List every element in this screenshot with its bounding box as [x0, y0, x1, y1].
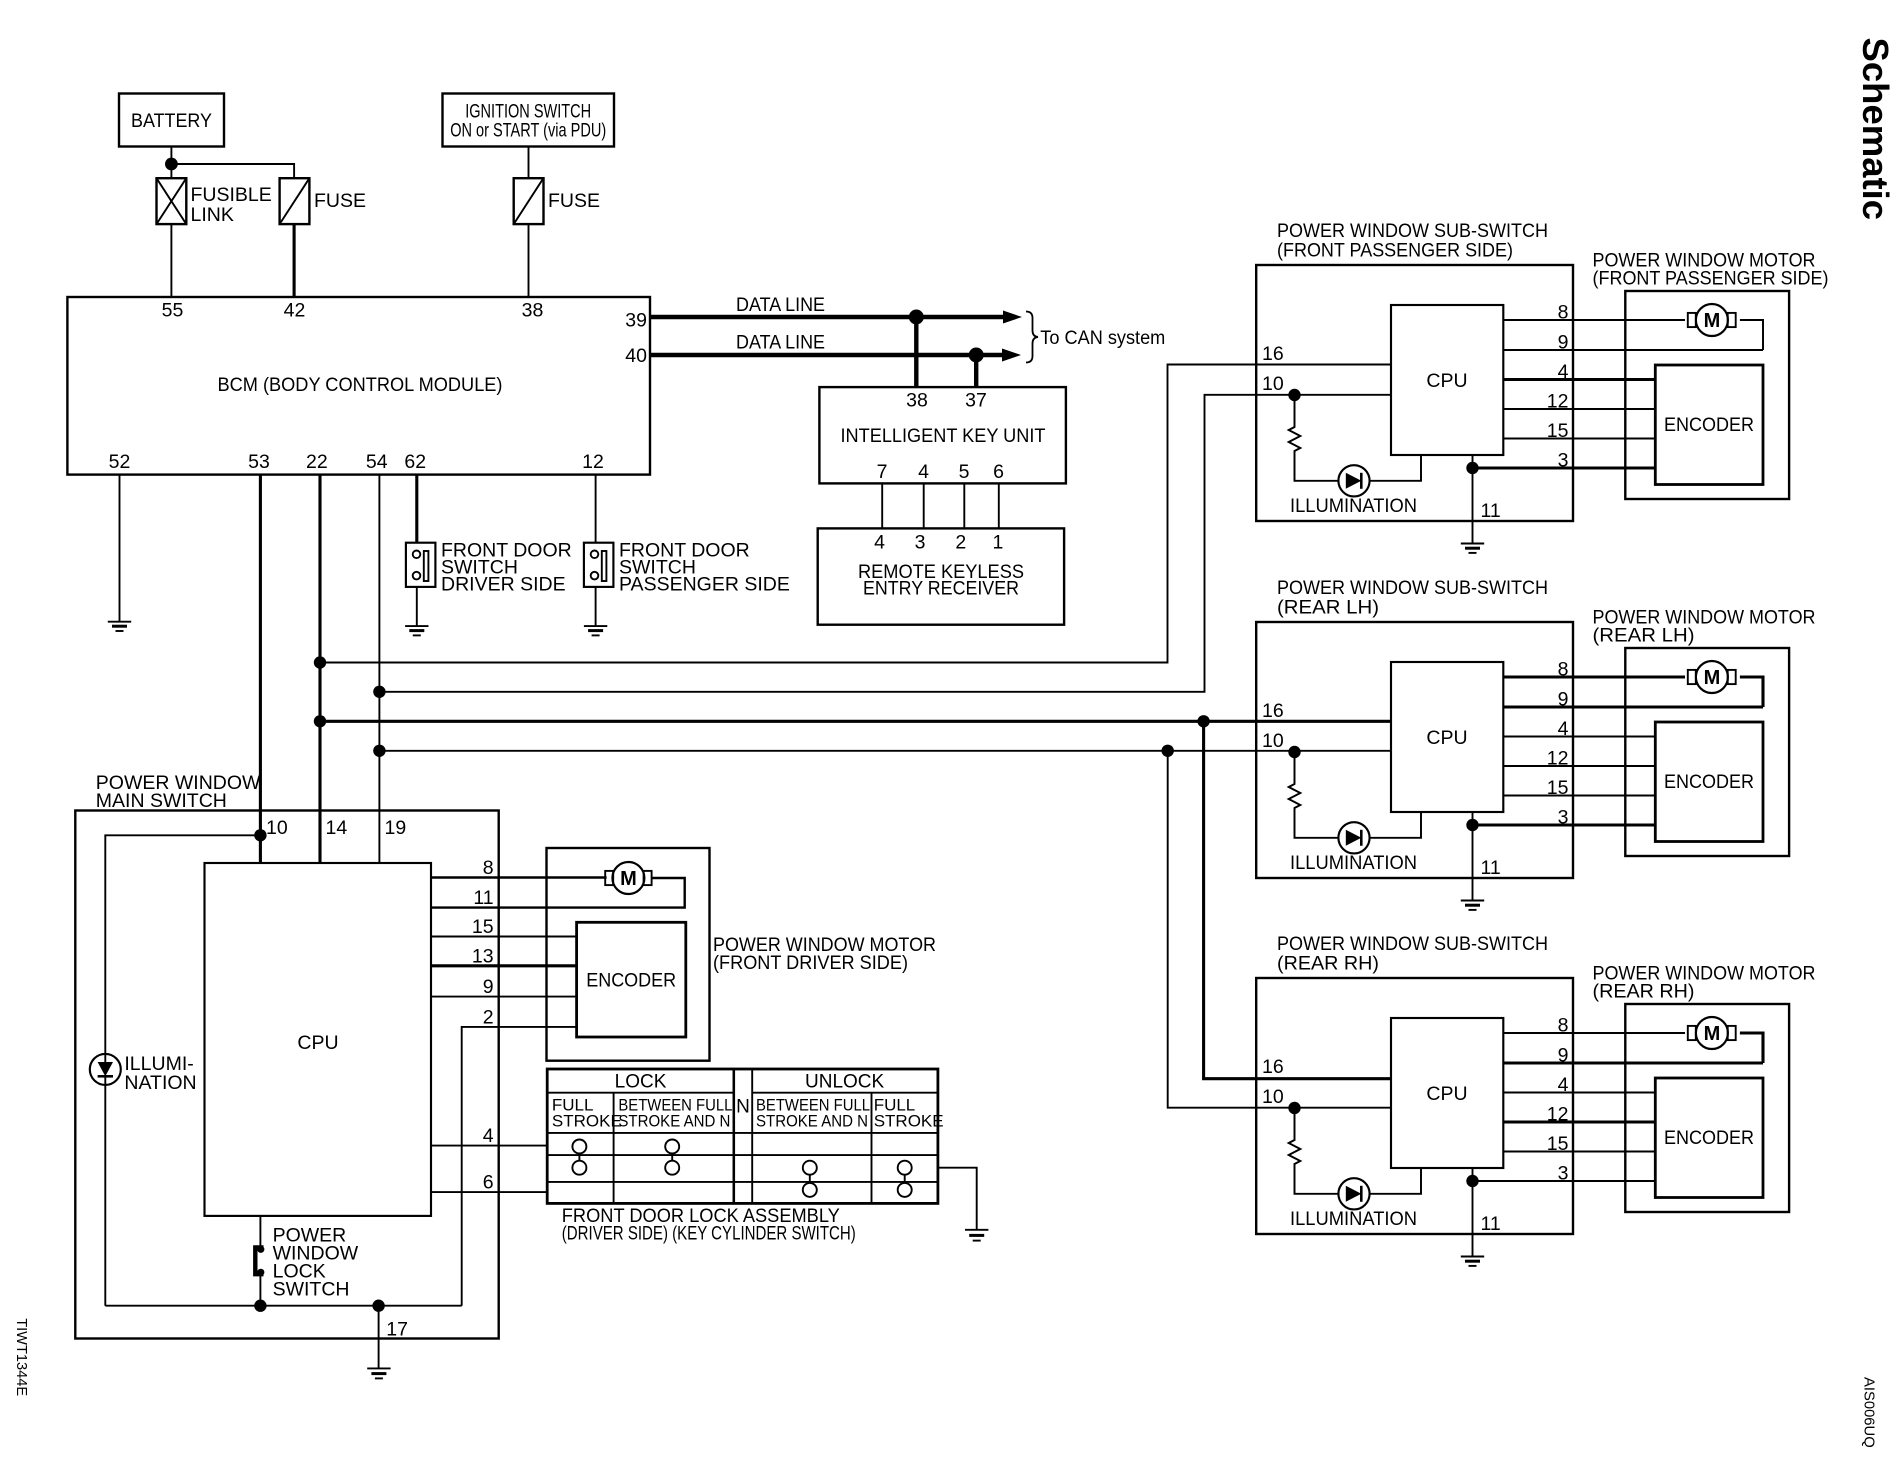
svg-text:8: 8 [483, 857, 494, 879]
remote keyless entry receiver [818, 528, 1064, 624]
svg-text:8: 8 [1558, 659, 1569, 681]
svg-text:ENCODER: ENCODER [1664, 415, 1754, 436]
wire IKU pin 37 [974, 355, 978, 387]
wire IKU 4 to RKE 3 [923, 483, 925, 528]
wire IKU 7 to RKE 4 [881, 483, 883, 528]
wire BCM pin 55 [170, 224, 172, 297]
svg-text:12: 12 [1547, 1104, 1569, 1126]
svg-text:12: 12 [1547, 748, 1569, 770]
wire BCM pin 12 to front door switch passenger side [595, 475, 597, 543]
wire CPU pin 9 to encoder [431, 996, 577, 998]
wire motor return to pin 9 (rear RH) [1740, 1033, 1763, 1063]
junction dot illumination branch (front passenger) [1288, 389, 1300, 401]
svg-text:9: 9 [1558, 1045, 1569, 1067]
svg-text:M: M [1704, 667, 1721, 689]
resistor illumination (rear LH) [1289, 752, 1339, 838]
resistor illumination (rear RH) [1289, 1108, 1339, 1194]
intelligent key unit [819, 387, 1066, 483]
resistor illumination (front passenger) [1289, 395, 1339, 481]
fusible link [157, 178, 187, 224]
junction dot battery branch [165, 158, 178, 171]
wire sub-switch pin 12 (rear LH) [1503, 765, 1655, 767]
wire BCM pin 38 [528, 224, 530, 297]
table row line 1 [547, 1132, 938, 1134]
ground (sub-switch rear LH pin 11) [1461, 901, 1484, 910]
junction dot pin 17 / ground bus [372, 1300, 384, 1312]
wire sub-switch pin 12 (front passenger) [1503, 408, 1655, 410]
svg-text:38: 38 [522, 300, 544, 322]
svg-text:FUSE: FUSE [548, 190, 600, 212]
front door lock assembly key cylinder switch table [547, 1069, 938, 1203]
svg-text:M: M [1704, 310, 1721, 332]
svg-text:BCM (BODY CONTROL MODULE): BCM (BODY CONTROL MODULE) [218, 374, 503, 396]
junction dot data line 40 / pin 37 [969, 348, 984, 363]
svg-text:6: 6 [993, 461, 1004, 483]
svg-text:ILLUMINATION: ILLUMINATION [1290, 1208, 1417, 1230]
motor M rear RH [1688, 1017, 1736, 1049]
table column divider col3/col4 [871, 1093, 873, 1204]
svg-text:3: 3 [1558, 807, 1569, 829]
svg-text:3: 3 [1558, 450, 1569, 472]
svg-text:11: 11 [1481, 857, 1501, 879]
power window motor front driver side box [547, 848, 710, 1061]
svg-text:POWER WINDOW MOTOR(FRONT DRIVE: POWER WINDOW MOTOR(FRONT DRIVER SIDE) [713, 934, 936, 974]
svg-text:11: 11 [1481, 500, 1501, 522]
wire CPU pin 15 to encoder [431, 936, 577, 938]
junction dot lock switch / ground bus [254, 1300, 266, 1312]
svg-text:7: 7 [877, 461, 888, 483]
svg-text:15: 15 [472, 916, 494, 938]
svg-text:15: 15 [1547, 777, 1569, 799]
svg-text:4: 4 [483, 1125, 494, 1147]
wire sub-switch pin 4 (rear RH) [1503, 1092, 1655, 1094]
arrowhead data line 39 [1003, 311, 1022, 324]
svg-text:12: 12 [582, 451, 604, 473]
svg-text:5: 5 [959, 461, 970, 483]
svg-text:40: 40 [625, 345, 647, 367]
svg-text:INTELLIGENT KEY UNIT: INTELLIGENT KEY UNIT [841, 425, 1046, 447]
svg-text:10: 10 [266, 817, 288, 839]
svg-text:53: 53 [248, 451, 270, 473]
wire pin 11 to ground (rear RH) [1472, 1168, 1474, 1256]
LED illumination (rear RH) [1338, 1178, 1369, 1209]
svg-text:9: 9 [1558, 332, 1569, 354]
svg-text:11: 11 [1481, 1213, 1501, 1235]
svg-text:8: 8 [1558, 302, 1569, 324]
encoder (rear RH) [1655, 1078, 1763, 1198]
wire branch to rear RH sub-switch pin 10 [1168, 751, 1391, 1108]
wire driver door switch to ground [416, 587, 418, 626]
junction dot pin 22 bus [314, 656, 326, 668]
CPU (rear RH) [1391, 1018, 1503, 1168]
svg-text:17: 17 [386, 1319, 408, 1341]
wire CPU to lock switch [259, 1216, 261, 1249]
svg-text:CPU: CPU [1426, 727, 1467, 749]
power window main switch [75, 811, 498, 1339]
svg-text:Schematic: Schematic [1855, 38, 1896, 221]
wire battery to junction [170, 147, 172, 179]
svg-text:52: 52 [109, 451, 131, 473]
front door switch passenger side [584, 543, 614, 587]
power window sub-switch front passenger [1256, 265, 1573, 521]
encoder (front passenger) [1655, 365, 1763, 485]
svg-text:CPU: CPU [1426, 370, 1467, 392]
table row line 2 [547, 1154, 938, 1156]
ground (sub-switch rear RH pin 11) [1461, 1257, 1484, 1266]
main switch CPU [205, 863, 432, 1216]
svg-text:4: 4 [874, 532, 885, 554]
svg-text:3: 3 [915, 532, 926, 554]
wire IKU pin 38 [914, 317, 918, 387]
wire CPU pin 6 to key cylinder switch [431, 1191, 547, 1193]
wire sub-switch pin 3 (front passenger) [1473, 466, 1656, 469]
wire sub-switch pin 3 (rear RH) [1473, 1180, 1656, 1182]
svg-text:BETWEEN FULLSTROKE AND N: BETWEEN FULLSTROKE AND N [756, 1096, 870, 1131]
ignition switch [443, 94, 615, 147]
svg-text:POWERWINDOWLOCKSWITCH: POWERWINDOWLOCKSWITCH [273, 1225, 359, 1301]
svg-text:13: 13 [472, 945, 494, 967]
svg-text:14: 14 [326, 817, 348, 839]
motor M front passenger [1688, 304, 1736, 336]
wire pin 11 to ground (rear LH) [1472, 812, 1474, 900]
wire ignition to fuse F2 [528, 147, 530, 179]
svg-text:ENCODER: ENCODER [1664, 772, 1754, 793]
battery [119, 94, 224, 147]
wire lock switch to ground bus [259, 1274, 261, 1306]
svg-text:37: 37 [965, 390, 987, 412]
wire sub-switch pin 8 (front passenger) [1503, 319, 1685, 321]
wire sub-switch pin 3 (rear LH) [1473, 823, 1656, 826]
wire key cylinder common to ground [938, 1168, 977, 1230]
svg-text:TIWT1344E: TIWT1344E [13, 1318, 29, 1396]
ground (BCM pin 52) [108, 622, 131, 631]
wire sub-switch pin 8 (rear LH) [1503, 675, 1685, 678]
svg-text:42: 42 [284, 300, 306, 322]
wire sub-switch pin 15 (rear LH) [1503, 795, 1655, 797]
junction dot pin 3 / pin 11 (front passenger) [1466, 462, 1478, 474]
svg-text:LOCK: LOCK [615, 1072, 667, 1093]
wire BCM pin 52 to ground [119, 475, 121, 622]
junction dot illumination branch (rear RH) [1288, 1102, 1300, 1114]
junction dot pin 54 / rear LH 10 bus [373, 745, 385, 757]
svg-text:4: 4 [1558, 361, 1569, 383]
power window sub-switch rear LH [1256, 622, 1573, 878]
power window motor rear RH box [1625, 1004, 1789, 1212]
ground bus inside main switch [105, 1305, 461, 1307]
wire bus pin 22 to front passenger sub-switch pin 16 [320, 365, 1391, 663]
svg-text:15: 15 [1547, 420, 1569, 442]
motor M rear LH [1688, 661, 1736, 693]
contact pair unlock between full stroke and N [803, 1161, 817, 1197]
data line net 39 [650, 315, 1006, 319]
LED illumination (main switch) [90, 1054, 121, 1085]
wire branch to rear RH sub-switch pin 16 [1204, 721, 1391, 1078]
svg-text:N: N [736, 1097, 750, 1118]
svg-text:M: M [620, 868, 637, 890]
wire motor return to pin 9 (front passenger) [1740, 320, 1763, 350]
svg-text:2: 2 [955, 532, 966, 554]
fuse F1 [280, 178, 310, 224]
wire CPU pin 13 to encoder [431, 964, 577, 967]
svg-text:3: 3 [1558, 1163, 1569, 1185]
wire motor return to CPU pin 11 [431, 878, 685, 908]
power window motor front passenger box [1625, 291, 1789, 499]
svg-text:ENCODER: ENCODER [586, 971, 676, 992]
svg-text:38: 38 [906, 390, 928, 412]
wire LED to CPU (rear RH) [1370, 1168, 1421, 1194]
junction dot illumination branch [254, 829, 266, 841]
ground (key cylinder switch) [965, 1230, 988, 1241]
svg-text:BETWEEN FULLSTROKE AND N: BETWEEN FULLSTROKE AND N [618, 1096, 732, 1131]
svg-text:39: 39 [625, 310, 647, 332]
junction dot data line 39 / pin 38 [909, 310, 924, 325]
LED illumination (front passenger) [1338, 465, 1369, 496]
svg-text:CPU: CPU [297, 1032, 338, 1054]
svg-text:4: 4 [1558, 1074, 1569, 1096]
ground (sub-switch front passenger pin 11) [1461, 544, 1484, 553]
motor M front driver side [605, 862, 651, 894]
power window sub-switch rear RH [1256, 978, 1573, 1234]
table row line 3 [547, 1181, 938, 1183]
svg-text:POWER WINDOW SUB-SWITCH(FRONT: POWER WINDOW SUB-SWITCH(FRONT PASSENGER … [1277, 220, 1548, 262]
svg-text:ENCODER: ENCODER [1664, 1128, 1754, 1149]
svg-text:9: 9 [483, 976, 494, 998]
encoder (front driver motor) [577, 922, 686, 1037]
wire sub-switch pin 8 (rear RH) [1503, 1032, 1685, 1034]
svg-text:11: 11 [473, 887, 493, 909]
wire bus pin 54 to front passenger sub-switch pin 10 [379, 395, 1391, 692]
junction dot rear RH 16 branch [1197, 715, 1209, 727]
svg-text:1: 1 [992, 532, 1003, 554]
wire sub-switch pin 9 (rear LH) [1503, 705, 1763, 708]
svg-text:54: 54 [366, 451, 388, 473]
wire CPU pin 8 to motor [431, 876, 607, 878]
wire BCM pin 22 to main switch pin 14 [318, 475, 321, 863]
wire IKU 5 to RKE 2 [963, 483, 965, 528]
svg-text:CPU: CPU [1426, 1083, 1467, 1105]
wire pin 11 to ground (front passenger) [1472, 455, 1474, 543]
BCM (body control module) [67, 297, 650, 475]
svg-text:55: 55 [162, 300, 184, 322]
svg-text:AIS006UQ: AIS006UQ [1861, 1377, 1877, 1448]
wire bus pin 54 to rear LH sub-switch pin 10 [379, 750, 1391, 752]
brace to CAN system [1026, 312, 1038, 363]
power window motor rear LH box [1625, 648, 1789, 856]
wire sub-switch pin 12 (rear RH) [1503, 1120, 1655, 1123]
wire sub-switch pin 9 (front passenger) [1503, 349, 1763, 351]
wire sub-switch pin 9 (rear RH) [1503, 1061, 1763, 1064]
LED illumination (rear LH) [1338, 822, 1369, 853]
svg-text:8: 8 [1558, 1015, 1569, 1037]
CPU (front passenger) [1391, 305, 1503, 455]
junction dot rear RH 10 branch [1162, 745, 1174, 757]
wire CPU pin 4 to key cylinder switch [431, 1145, 547, 1147]
svg-text:62: 62 [404, 451, 426, 473]
svg-text:FRONT DOOR LOCK ASSEMBLY(DRIVE: FRONT DOOR LOCK ASSEMBLY(DRIVER SIDE) (K… [562, 1205, 856, 1245]
svg-text:M: M [1704, 1023, 1721, 1045]
wire LED to CPU (rear LH) [1370, 812, 1421, 838]
wire LED to CPU (front passenger) [1370, 455, 1421, 481]
svg-text:FUSE: FUSE [314, 190, 366, 212]
svg-text:DATA LINE: DATA LINE [736, 332, 825, 354]
svg-text:POWER WINDOW MOTOR(FRONT PASSE: POWER WINDOW MOTOR(FRONT PASSENGER SIDE) [1593, 250, 1829, 290]
fuse F2 [514, 178, 544, 224]
svg-text:6: 6 [483, 1172, 494, 1194]
svg-text:REMOTE KEYLESSENTRY RECEIVER: REMOTE KEYLESSENTRY RECEIVER [858, 561, 1024, 600]
power window lock switch [255, 1246, 264, 1276]
contact pair lock between full stroke and N [665, 1140, 679, 1175]
junction dot pin 54 bus [373, 686, 385, 698]
encoder (rear LH) [1655, 722, 1763, 842]
wire BCM pin 54 to main switch pin 19 [378, 475, 380, 863]
svg-text:BATTERY: BATTERY [131, 110, 212, 132]
svg-text:ILLUMINATION: ILLUMINATION [1290, 852, 1417, 874]
wire BCM pin 42 [293, 224, 296, 297]
ground (passenger door switch) [584, 626, 607, 635]
ground (driver door switch) [405, 626, 428, 635]
svg-text:UNLOCK: UNLOCK [805, 1072, 885, 1093]
CPU (rear LH) [1391, 662, 1503, 812]
wire passenger door switch to ground [595, 587, 597, 626]
svg-text:12: 12 [1547, 391, 1569, 413]
wire sub-switch pin 15 (front passenger) [1503, 438, 1655, 440]
svg-text:10: 10 [1262, 730, 1284, 752]
svg-text:IGNITION SWITCHON or START (vi: IGNITION SWITCHON or START (via PDU) [450, 101, 606, 142]
contact pair unlock full stroke [898, 1161, 912, 1197]
wire junction to fuse (pin 42 branch) [171, 164, 294, 178]
svg-text:ILLUMINATION: ILLUMINATION [1290, 495, 1417, 517]
svg-text:To CAN system: To CAN system [1040, 327, 1165, 349]
wire bus pin 22 to rear LH sub-switch pin 16 [320, 720, 1391, 723]
data line net 40 [650, 353, 1005, 357]
svg-text:2: 2 [483, 1006, 494, 1028]
wire BCM pin 62 to front door switch driver side [415, 475, 418, 543]
svg-text:16: 16 [1262, 343, 1284, 365]
table header divider row [547, 1092, 734, 1094]
wire pin 2 encoder ground [462, 1027, 577, 1306]
svg-text:4: 4 [918, 461, 929, 483]
svg-text:16: 16 [1262, 700, 1284, 722]
wire illumination feed [105, 835, 260, 1054]
svg-text:22: 22 [306, 451, 328, 473]
wire sub-switch pin 4 (rear LH) [1503, 736, 1655, 738]
front door switch driver side [406, 543, 436, 587]
table N column dividers [733, 1069, 736, 1203]
svg-text:DATA LINE: DATA LINE [736, 294, 825, 316]
junction dot illumination branch (rear LH) [1288, 746, 1300, 758]
table column divider col1/col2 [613, 1093, 615, 1204]
wire illumination return to ground bus [104, 1085, 106, 1306]
svg-text:ILLUMI-NATION: ILLUMI-NATION [124, 1053, 196, 1094]
wire BCM pin 53 to main switch pin 10 [259, 475, 262, 863]
svg-text:4: 4 [1558, 718, 1569, 740]
svg-text:16: 16 [1262, 1056, 1284, 1078]
svg-text:10: 10 [1262, 373, 1284, 395]
junction dot pin 22 / rear LH 16 bus [314, 715, 326, 727]
wire sub-switch pin 4 (front passenger) [1503, 378, 1655, 381]
arrowhead data line 40 [1002, 349, 1021, 362]
svg-text:15: 15 [1547, 1133, 1569, 1155]
junction dot pin 3 / pin 11 (rear LH) [1466, 819, 1478, 831]
junction dot pin 3 / pin 11 (rear RH) [1466, 1175, 1478, 1187]
wire motor return to pin 9 (rear LH) [1740, 677, 1763, 707]
wire pin 17 to ground [378, 1306, 380, 1369]
svg-text:9: 9 [1558, 689, 1569, 711]
ground (main switch pin 17) [367, 1368, 390, 1378]
svg-text:10: 10 [1262, 1086, 1284, 1108]
svg-text:19: 19 [385, 817, 407, 839]
wire IKU 6 to RKE 1 [998, 483, 1000, 528]
wire sub-switch pin 15 (rear RH) [1503, 1151, 1655, 1153]
contact pair lock full stroke [572, 1140, 586, 1175]
